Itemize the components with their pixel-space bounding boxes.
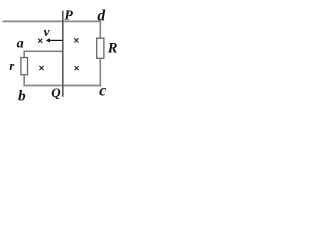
svg-text:R: R [107, 40, 118, 56]
field mark x1 (left of arrow) [38, 39, 42, 43]
svg-text:d: d [97, 8, 105, 25]
svg-text:c: c [99, 83, 106, 100]
wire left branch bottom (r to b corner) [23, 75, 25, 86]
wire right branch top (d corner down to R) [99, 21, 101, 38]
svg-text:a: a [17, 36, 24, 51]
resistor r [21, 58, 28, 75]
wire left branch top (a corner down to r) [23, 51, 25, 58]
wire bottom rail b-Q-c [23, 85, 101, 87]
svg-text:r: r [9, 59, 14, 73]
field mark x4 (right loop, lower) [75, 66, 79, 70]
svg-text:b: b [18, 89, 26, 105]
field mark x3 (left loop, lower) [39, 66, 43, 70]
velocity arrow v [46, 38, 63, 42]
wire a-line (a to rod) [24, 50, 64, 52]
svg-text:Q: Q [51, 85, 61, 100]
rod PQ [62, 11, 64, 97]
resistor R [97, 38, 104, 58]
wire right branch bottom (R to c corner) [99, 58, 101, 85]
background [0, 0, 135, 112]
wire top rail P-d [3, 20, 102, 22]
field mark x2 (right of rod, upper) [74, 38, 78, 42]
svg-text:v: v [44, 25, 50, 39]
svg-text:P: P [64, 8, 73, 23]
